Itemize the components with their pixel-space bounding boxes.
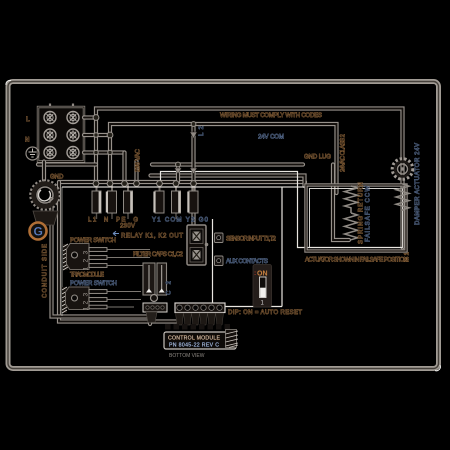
svg-text:N: N <box>25 138 29 144</box>
TO-220 Q1 hatch <box>63 244 68 270</box>
wire L row <box>84 115 96 119</box>
terminal T6 <box>187 191 198 213</box>
stub small connector <box>148 312 152 324</box>
drop PE to T3 <box>122 153 126 183</box>
svg-text:230 VAC: 230 VAC <box>136 148 142 172</box>
svg-text:FILTER CAPS C1,C2: FILTER CAPS C1,C2 <box>133 252 184 258</box>
svg-text:230V: 230V <box>120 224 135 230</box>
terminal block TB1 <box>38 107 84 162</box>
Q2 pin wires <box>107 292 141 308</box>
svg-text:CONDUIT SIDE: CONDUIT SIDE <box>43 244 49 298</box>
TO-220 Q2 body <box>66 287 90 310</box>
terminal T1 <box>92 191 101 213</box>
svg-text:FAILSAFE CCW: FAILSAFE CCW <box>366 186 372 242</box>
spring return lower <box>345 213 358 240</box>
wire A (L to actuator) <box>96 109 403 248</box>
Q1 pin wires <box>107 250 150 266</box>
terminal T5 <box>172 191 181 213</box>
TO-220 Q2 hatch <box>62 287 67 313</box>
TO-220 Q1 body <box>67 244 90 270</box>
svg-text:DAMPER ACTUATOR 24V: DAMPER ACTUATOR 24V <box>415 143 421 225</box>
svg-text:DIP: ON = AUTO RESET: DIP: ON = AUTO RESET <box>228 310 302 316</box>
caption box bottom <box>164 332 236 349</box>
screw terminals of TB1 <box>44 112 79 159</box>
svg-text:RELAY K1, K2 OUT: RELAY K1, K2 OUT <box>121 234 183 240</box>
wire G horizontal <box>38 162 303 166</box>
svg-text:2: 2 <box>83 259 90 263</box>
svg-text:24VAC CLASS 2: 24VAC CLASS 2 <box>341 133 347 172</box>
svg-text:BOTTOM VIEW: BOTTOM VIEW <box>169 353 205 359</box>
wire C <box>151 176 305 187</box>
drop L to T1 <box>94 118 98 183</box>
border frame <box>6 80 440 370</box>
wire left earth return <box>52 199 151 317</box>
wire B (N feed) <box>110 124 337 193</box>
svg-text:POWER SWITCH: POWER SWITCH <box>70 281 117 287</box>
gear on wire A <box>393 159 413 179</box>
svg-text:PN 8045-22 REV C: PN 8045-22 REV C <box>169 343 219 349</box>
capacitor C2 <box>157 263 167 295</box>
wire G elbow to spring <box>333 165 349 241</box>
svg-text:CONTROL MODULE: CONTROL MODULE <box>168 336 221 342</box>
svg-text:Y1 COM Y2 G0: Y1 COM Y2 G0 <box>152 218 209 224</box>
svg-text:WIRING MUST COMPLY WITH CODES: WIRING MUST COMPLY WITH CODES <box>220 113 322 119</box>
bus line <box>59 180 305 184</box>
svg-text:L: L <box>26 117 30 123</box>
svg-text:SPRING RETURN: SPRING RETURN <box>359 182 365 244</box>
junction dots <box>93 115 196 187</box>
terminal T2 <box>106 191 117 213</box>
wire V2 <box>191 124 195 225</box>
small connector CN2 <box>143 295 167 323</box>
capacitor C1 <box>143 263 155 295</box>
actuator box <box>306 185 406 251</box>
hatch square <box>226 330 239 348</box>
teeth row above caption box <box>165 324 230 330</box>
svg-text:POWER SWITCH: POWER SWITCH <box>70 238 116 244</box>
terminal T3 <box>124 191 133 213</box>
relay outputs caption with arrow <box>113 231 183 239</box>
cable clamp gear <box>31 181 59 209</box>
terminal T4 <box>153 191 164 213</box>
PE drop from block <box>42 162 46 181</box>
Q2 pins <box>89 290 107 309</box>
white PCB outline <box>62 187 306 316</box>
flow arrows on V1/V2 <box>175 132 198 174</box>
spring return upper <box>345 186 358 213</box>
wire V1 <box>176 165 180 183</box>
wire PE row <box>84 150 125 154</box>
stubs above terminal block <box>50 104 73 108</box>
wire N row <box>84 133 110 137</box>
Q1 pins <box>89 248 107 268</box>
clamp base <box>33 211 58 225</box>
label J3 row2 <box>215 256 224 266</box>
main terminal strip CN1 <box>175 303 225 313</box>
terminal stubs to bus <box>97 184 194 191</box>
white wire from T4 <box>161 172 403 248</box>
earth badge G <box>30 223 47 240</box>
svg-text:TRIAC MODULE: TRIAC MODULE <box>70 273 104 279</box>
wire lugs under strip <box>176 313 224 325</box>
svg-text:3: 3 <box>83 293 90 297</box>
svg-text:1: 1 <box>83 307 90 311</box>
svg-text:3: 3 <box>83 251 90 255</box>
spring under gear <box>396 184 409 211</box>
svg-text::: : <box>254 270 256 277</box>
terminal stubs below <box>97 213 177 219</box>
svg-text:1: 1 <box>83 267 90 271</box>
svg-text:24V COM: 24V COM <box>258 135 284 141</box>
2-pole terminal block J3 <box>187 225 208 265</box>
svg-text:ACTUATOR SHOWN IN FAILSAFE POS: ACTUATOR SHOWN IN FAILSAFE POSITION <box>305 258 408 264</box>
svg-text:G: G <box>34 225 43 239</box>
PE symbol <box>26 147 39 160</box>
label J3 row1 <box>215 233 224 243</box>
DIP switch S1 <box>253 265 272 308</box>
stub T4 <box>134 161 138 182</box>
svg-text:GND LUG: GND LUG <box>304 155 331 161</box>
drop N to T2 <box>108 135 112 182</box>
svg-text:2: 2 <box>83 301 90 305</box>
svg-text:SENSOR INPUT T1,T2: SENSOR INPUT T1,T2 <box>226 237 277 243</box>
svg-text:ON: ON <box>257 271 268 278</box>
wire left outer return <box>59 182 176 322</box>
svg-text:GND: GND <box>50 175 64 181</box>
